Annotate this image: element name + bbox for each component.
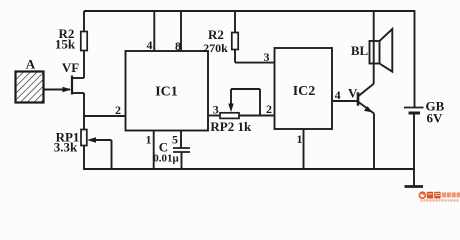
wire IC1 pin 1 to bottom rail — [153, 131, 155, 170]
svg-text:8: 8 — [175, 39, 181, 53]
svg-text:2: 2 — [115, 103, 121, 117]
svg-text:4: 4 — [335, 88, 341, 102]
resistor R2 270k — [203, 11, 238, 63]
svg-text:VF: VF — [62, 60, 79, 75]
svg-text:V: V — [348, 86, 358, 101]
svg-text:A: A — [26, 57, 36, 72]
sensor A (hatched block) — [16, 57, 44, 103]
svg-text:6V: 6V — [427, 111, 444, 126]
wire RP2 to IC2 pin 2 — [239, 115, 275, 117]
transistor V (NPN) — [348, 84, 374, 170]
svg-text:3: 3 — [264, 50, 270, 64]
svg-text:BL: BL — [351, 43, 369, 58]
svg-text:R2: R2 — [208, 27, 224, 42]
wire top supply rail — [84, 10, 415, 12]
battery GB short plate — [409, 112, 421, 115]
svg-text:5: 5 — [172, 133, 178, 147]
wire IC1 pin 4 to top rail — [153, 11, 155, 51]
svg-text:4: 4 — [147, 38, 153, 52]
svg-text:270k: 270k — [203, 41, 228, 55]
transistor VF (FET) — [44, 60, 84, 95]
watermark logo — [419, 192, 460, 202]
svg-text:3.3k: 3.3k — [54, 140, 78, 155]
svg-text:2: 2 — [266, 102, 272, 116]
svg-text:1: 1 — [297, 132, 303, 146]
wire top rail to speaker and collector — [373, 11, 375, 84]
svg-text:1: 1 — [146, 133, 152, 147]
op-amp IC1 — [126, 51, 209, 131]
ground — [405, 185, 424, 188]
svg-text:RP2 1k: RP2 1k — [210, 119, 252, 134]
wire right rail to battery + — [414, 10, 416, 107]
svg-text:3: 3 — [213, 103, 219, 117]
wire IC1 pin 3 to RP2 — [208, 115, 220, 117]
wire node to IC1 pin 2 — [84, 115, 126, 117]
svg-text:15k: 15k — [55, 37, 76, 52]
potentiometer RP1 3.3k — [54, 130, 112, 170]
wire IC2 pin 4 to transistor base — [332, 100, 358, 102]
capacitor C 0.01u — [153, 140, 190, 170]
op-amp IC2 — [275, 48, 333, 129]
svg-text:IC2: IC2 — [293, 84, 316, 99]
wire battery - to ground — [413, 113, 415, 187]
potentiometer RP2 1k — [210, 89, 260, 134]
wire IC1 pin 8 to top rail — [180, 11, 182, 51]
wire R2 270k to IC2 pin 3 — [235, 62, 275, 64]
resistor R2 15k — [55, 11, 87, 78]
wire IC2 pin 1 to bottom rail — [303, 129, 305, 169]
svg-text:IC1: IC1 — [155, 85, 178, 100]
battery GB long plate — [404, 107, 424, 109]
wire bottom rail — [83, 168, 414, 170]
wire VF source down to RP1 and pin 2 node — [83, 93, 85, 130]
svg-text:0.01μ: 0.01μ — [153, 153, 179, 165]
wire IC1 pin 5 to capacitor — [180, 131, 182, 149]
speaker BL — [351, 29, 392, 72]
